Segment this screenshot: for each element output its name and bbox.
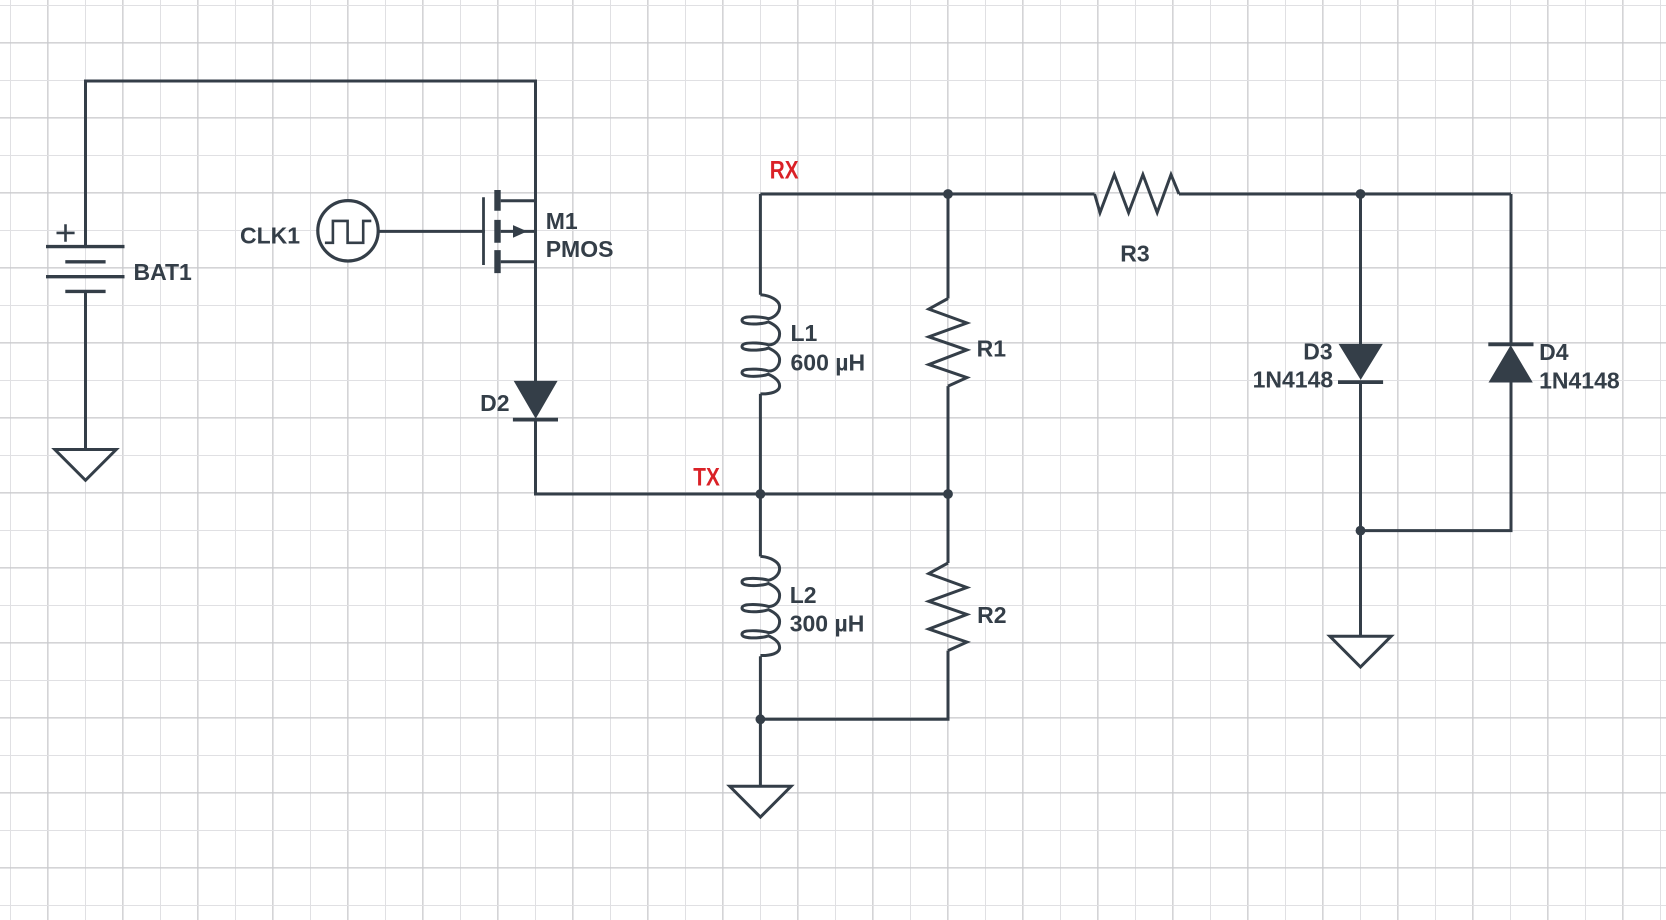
svg-text:L2: L2: [790, 582, 817, 608]
node bottom junction at ground: [756, 714, 766, 724]
svg-text:D4: D4: [1539, 339, 1569, 365]
wire D2 cathode to TX node and across to R2 top: [536, 421, 949, 494]
svg-text:PMOS: PMOS: [546, 236, 614, 262]
battery BAT1: [46, 224, 125, 291]
svg-text:L1: L1: [791, 320, 818, 346]
wire TX to L2 top: [759, 494, 762, 556]
wire D3 node to ground: [1359, 531, 1362, 637]
svg-text:300 µH: 300 µH: [790, 611, 865, 637]
wire D4 anode down and across to D3 node: [1361, 382, 1512, 531]
wire L2 bottom to bottom node: [759, 656, 762, 719]
svg-text:600 µH: 600 µH: [791, 350, 866, 376]
ground below L2/R2 node: [730, 786, 791, 817]
svg-text:TX: TX: [693, 463, 720, 491]
wire R1 bottom: [947, 386, 950, 494]
svg-text:BAT1: BAT1: [134, 259, 193, 285]
svg-text:R3: R3: [1120, 241, 1149, 267]
svg-text:R2: R2: [977, 602, 1006, 628]
node junction D3/D4: [1356, 526, 1366, 536]
wire CLK1 output to M1 gate: [378, 230, 485, 233]
svg-text:1N4148: 1N4148: [1253, 367, 1334, 393]
wire D4 cathode drop: [1510, 194, 1513, 344]
resistor R3: [1095, 175, 1179, 213]
ground below BAT1: [55, 450, 116, 481]
wire R3 right to D3 and D4 top: [1179, 193, 1511, 196]
svg-text:D3: D3: [1303, 338, 1332, 364]
wire battery negative to ground: [84, 292, 87, 450]
diode D2: [513, 382, 558, 420]
diode D4: [1488, 344, 1533, 382]
svg-text:RX: RX: [770, 155, 799, 183]
wire RX node horizontal run to R3: [760, 193, 1094, 196]
resistor R2: [929, 563, 967, 651]
inductor L1: [742, 295, 780, 394]
node RX junction at R1: [943, 189, 953, 199]
clock source CLK1: [318, 201, 378, 261]
node TX junction at R1/R2: [943, 489, 953, 499]
wire D3 anode from RX rail: [1359, 194, 1362, 345]
transistor M1 PMOS: [484, 190, 536, 273]
svg-text:D2: D2: [480, 390, 509, 416]
wire R2 top: [947, 494, 950, 563]
wire L1 bottom to TX: [759, 394, 762, 494]
resistor R1: [929, 299, 967, 387]
wire L1 top: [759, 194, 762, 295]
diode D3: [1338, 345, 1383, 383]
svg-text:R1: R1: [977, 335, 1007, 361]
wire R2 bottom, bottom bus, ground stem: [760, 651, 948, 787]
node TX junction at L1/L2: [756, 489, 766, 499]
svg-text:M1: M1: [546, 208, 578, 234]
wire top rail: battery top to M1 drain rail: [86, 81, 536, 382]
svg-text:CLK1: CLK1: [240, 223, 300, 249]
ground below D3/D4 node: [1330, 636, 1391, 667]
inductor L2: [742, 556, 780, 655]
wire R1 top: [947, 194, 950, 299]
svg-text:1N4148: 1N4148: [1539, 367, 1620, 393]
node junction at D3: [1356, 189, 1366, 199]
wire D3 cathode down: [1359, 384, 1362, 531]
